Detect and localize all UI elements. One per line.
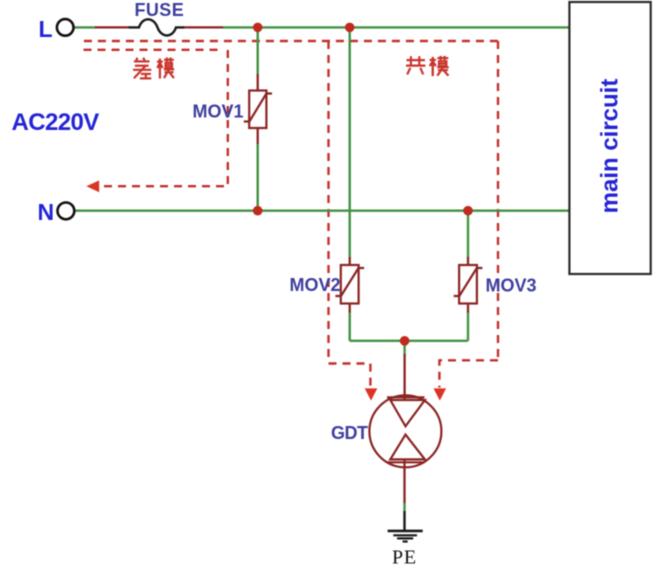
svg-text:PE: PE xyxy=(392,547,417,568)
svg-text:MOV1: MOV1 xyxy=(193,102,244,122)
svg-text:main circuit: main circuit xyxy=(597,79,624,214)
svg-text:MOV3: MOV3 xyxy=(486,276,537,296)
svg-text:FUSE: FUSE xyxy=(135,0,185,20)
svg-text:AC220V: AC220V xyxy=(12,109,100,136)
svg-text:MOV2: MOV2 xyxy=(290,275,341,295)
svg-text:N: N xyxy=(38,199,55,225)
svg-text:GDT: GDT xyxy=(331,423,368,443)
svg-text:L: L xyxy=(39,16,53,42)
